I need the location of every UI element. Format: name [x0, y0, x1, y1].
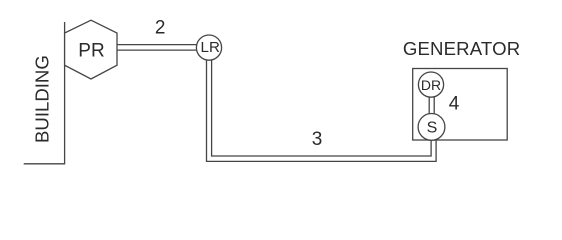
svg-text:2: 2: [155, 17, 166, 38]
svg-text:BUILDING: BUILDING: [31, 55, 52, 143]
svg-text:GENERATOR: GENERATOR: [403, 38, 520, 59]
svg-text:LR: LR: [201, 39, 220, 56]
svg-text:PR: PR: [78, 41, 104, 62]
svg-text:S: S: [427, 120, 438, 137]
svg-text:4: 4: [449, 94, 460, 115]
svg-text:DR: DR: [421, 77, 441, 93]
svg-text:3: 3: [312, 129, 323, 150]
